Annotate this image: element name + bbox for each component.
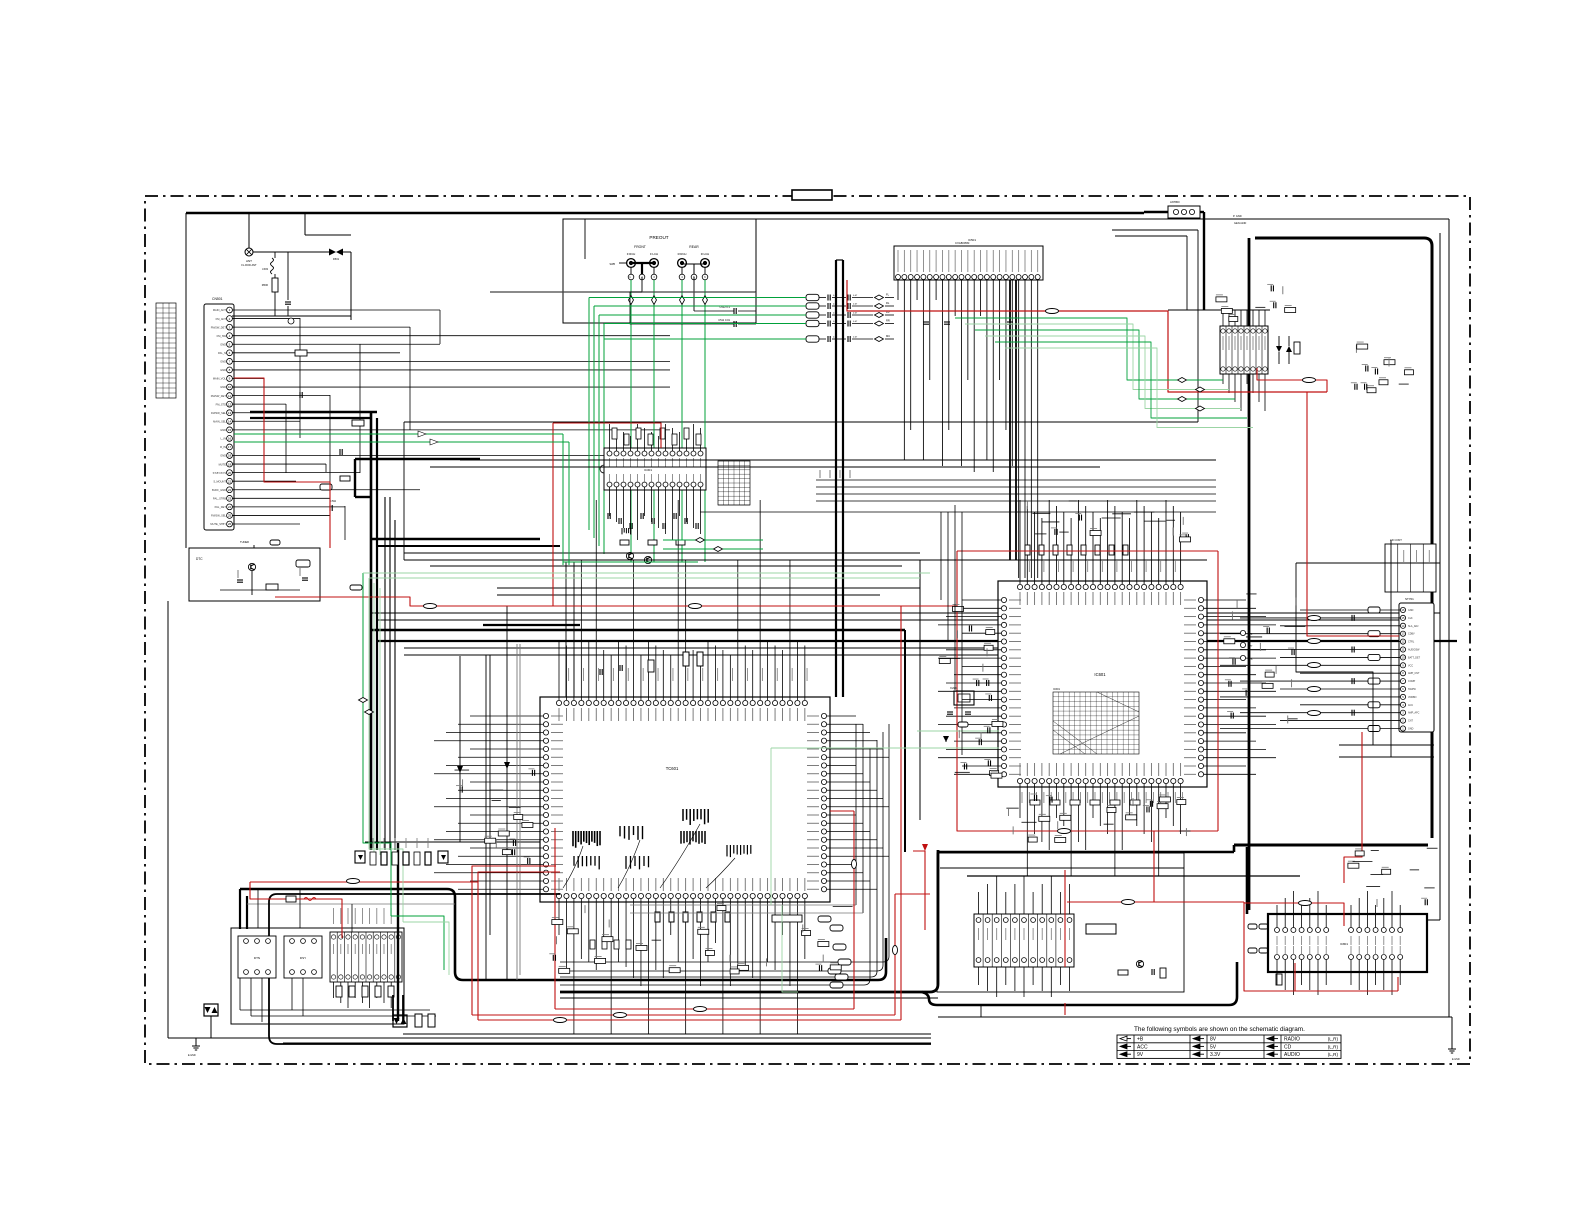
svg-text:CD: CD <box>1284 1044 1292 1050</box>
title box on top border <box>792 190 832 200</box>
cluster above IC601 <box>1027 501 1190 542</box>
svg-text:GND: GND <box>220 385 226 389</box>
svg-text:R:RCH: R:RCH <box>678 252 687 256</box>
connector ST701 <box>1385 538 1436 732</box>
green mid links <box>663 538 763 552</box>
cluster bottom right parts <box>1348 848 1438 907</box>
svg-text:3.3V: 3.3V <box>1210 1052 1221 1058</box>
svg-text:VDDBN: VDDBN <box>1408 696 1417 699</box>
svg-text:IC601: IC601 <box>1053 687 1060 691</box>
svg-text:ACC: ACC <box>1137 1044 1148 1050</box>
IC601 pin table <box>1053 687 1139 754</box>
svg-text:GND: GND <box>220 368 226 372</box>
svg-text:19: 19 <box>228 462 232 466</box>
svg-text:(L,R): (L,R) <box>1328 1044 1339 1049</box>
center vertical wires <box>398 260 920 1021</box>
svg-text:22: 22 <box>228 488 232 492</box>
svg-text:CN501: CN501 <box>212 297 223 301</box>
cluster top right pa-mute <box>1216 284 1296 321</box>
cluster right of IC601 <box>1224 594 1306 724</box>
cluster left of IC601 <box>939 505 1003 778</box>
structural outline lines <box>168 212 1452 1044</box>
svg-text:CDBV: CDBV <box>1408 633 1415 636</box>
connector CN501 <box>204 297 234 530</box>
thick bus right frame <box>1144 212 1432 910</box>
svg-text:FM_SW: FM_SW <box>217 334 227 338</box>
svg-text:13: 13 <box>228 411 232 415</box>
thick center bus <box>250 412 1457 850</box>
cluster below IC601 <box>1006 794 1190 842</box>
svg-text:The following symbols are show: The following symbols are shown on the s… <box>1134 1026 1305 1033</box>
svg-text:GND: GND <box>1408 728 1414 731</box>
svg-text:0.562: 0.562 <box>330 500 337 503</box>
svg-text:8V: 8V <box>1210 1037 1217 1043</box>
TC601 top pin wires <box>559 500 807 700</box>
svg-text:(L,R): (L,R) <box>1328 1037 1339 1042</box>
svg-text:PAL_DET: PAL_DET <box>215 505 227 509</box>
svg-text:L503: L503 <box>262 267 268 271</box>
TC601 bottom pin wires <box>559 899 805 1034</box>
svg-text:FRONT: FRONT <box>634 245 646 249</box>
IC501 pin drop wires <box>898 280 1038 579</box>
preout jacks <box>563 219 756 323</box>
svg-text:CLK: CLK <box>1408 617 1413 620</box>
preout caps <box>585 219 756 327</box>
svg-text:E.GND: E.GND <box>1452 1058 1460 1061</box>
svg-text:ACC: ACC <box>1408 704 1413 707</box>
svg-text:C511 0.01: C511 0.01 <box>718 318 730 322</box>
svg-text:GND: GND <box>220 428 226 432</box>
svg-text:16: 16 <box>228 437 232 441</box>
svg-text:PAL_STRB: PAL_STRB <box>213 497 226 501</box>
IC TC601 <box>540 697 830 902</box>
svg-text:FM/SW_DET: FM/SW_DET <box>211 394 227 398</box>
svg-text:5V: 5V <box>1210 1044 1217 1050</box>
svg-text:21: 21 <box>228 479 232 483</box>
green preout feed lines <box>589 298 806 555</box>
cluster below TC601 <box>549 904 852 974</box>
svg-text:23: 23 <box>228 497 232 501</box>
svg-text:FM/SW_SEL: FM/SW_SEL <box>211 411 227 415</box>
crystal XL601 <box>943 686 974 742</box>
svg-text:XL601: XL601 <box>950 686 958 690</box>
component row S801 <box>355 838 448 865</box>
svg-text:ANT800: ANT800 <box>1170 200 1180 204</box>
svg-text:TP8: TP8 <box>1248 658 1253 661</box>
svg-text:DTN: DTN <box>254 956 260 960</box>
svg-text:MUTE_STBY: MUTE_STBY <box>210 522 226 526</box>
svg-text:CXA8005M: CXA8005M <box>955 241 970 245</box>
svg-text:CTRL: CTRL <box>1408 641 1415 644</box>
svg-text:IC601: IC601 <box>1094 672 1106 677</box>
connector 3pin antenna <box>894 200 1270 310</box>
CN501 wiring mesh <box>232 310 670 590</box>
thick bus bottom <box>240 845 1300 1034</box>
svg-text:14: 14 <box>228 419 232 423</box>
svg-text:IC301: IC301 <box>644 468 652 472</box>
svg-text:R:LCH: R:LCH <box>701 252 709 256</box>
preamp RC coupling rows <box>806 293 894 343</box>
svg-text:AUDIO: AUDIO <box>1284 1052 1300 1058</box>
svg-text:DTC: DTC <box>196 557 203 561</box>
svg-text:12: 12 <box>228 402 232 406</box>
svg-text:GND: GND <box>220 360 226 364</box>
svg-text:E.GND: E.GND <box>188 1054 196 1057</box>
svg-text:DSY: DSY <box>300 956 306 960</box>
svg-text:+B: +B <box>1137 1037 1144 1043</box>
svg-text:SWB: SWB <box>610 263 616 266</box>
IC601 horizontal pin wires <box>938 600 1276 774</box>
svg-text:FM/SW_DET: FM/SW_DET <box>211 325 227 329</box>
svg-text:S_MOUNT: S_MOUNT <box>213 479 226 483</box>
page dash-dot border <box>145 196 1470 1064</box>
svg-text:AMP_CNT: AMP_CNT <box>1408 672 1420 675</box>
IC IC601 <box>998 581 1207 787</box>
svg-text:P. GND: P. GND <box>1233 214 1242 218</box>
ST701 wiring <box>1220 540 1440 757</box>
svg-text:18: 18 <box>228 454 232 458</box>
svg-text:D501: D501 <box>333 257 340 261</box>
svg-text:10: 10 <box>228 385 232 389</box>
svg-text:26: 26 <box>228 522 232 526</box>
svg-text:CNT: CNT <box>1408 720 1413 723</box>
legend symbol table <box>1117 1026 1341 1058</box>
svg-text:COMP: COMP <box>1408 680 1416 683</box>
svg-text:MAIN_SEL: MAIN_SEL <box>213 419 226 423</box>
svg-text:MAIN_VOL: MAIN_VOL <box>213 377 227 381</box>
connector CN801 <box>974 876 1074 997</box>
IC601 vertical pin wires <box>1020 500 1183 876</box>
sub-board DTC box <box>189 540 320 601</box>
svg-text:MAIN_ANT: MAIN_ANT <box>213 308 227 312</box>
svg-text:TUNER: TUNER <box>240 540 249 544</box>
svg-text:TC601: TC601 <box>666 766 679 771</box>
IC301 bottom parts <box>608 513 698 564</box>
svg-text:R_IN: R_IN <box>220 445 226 449</box>
svg-text:REAR: REAR <box>689 245 699 249</box>
svg-text:(L,R): (L,R) <box>1328 1052 1339 1057</box>
TC601 right wire bundle <box>560 716 938 998</box>
svg-text:ST701: ST701 <box>1405 597 1414 601</box>
svg-text:RR: RR <box>886 319 890 323</box>
svg-text:IC801: IC801 <box>1340 942 1348 946</box>
svg-text:GND: GND <box>220 454 226 458</box>
svg-text:15: 15 <box>228 428 232 432</box>
svg-text:TP1: TP1 <box>1248 633 1253 636</box>
svg-text:25: 25 <box>228 514 232 518</box>
svg-text:20: 20 <box>228 471 232 475</box>
svg-text:PAL_N: PAL_N <box>218 351 226 355</box>
svg-text:BATT_DET: BATT_DET <box>1408 656 1421 659</box>
svg-text:MU: MU <box>886 334 890 338</box>
svg-text:RADIO: RADIO <box>1284 1037 1300 1043</box>
dual diodes and grounds <box>188 995 1460 1061</box>
svg-text:TP7: TP7 <box>1248 645 1253 648</box>
svg-text:AUDIOSW: AUDIOSW <box>1408 649 1420 652</box>
svg-text:PREOUT: PREOUT <box>649 235 668 240</box>
display block assembly <box>231 889 931 1044</box>
green fan wires <box>955 318 1253 428</box>
svg-text:BUFF_GND: BUFF_GND <box>212 488 226 492</box>
central bus bundle <box>371 460 1440 655</box>
svg-text:FL.ROD ANT: FL.ROD ANT <box>241 263 257 267</box>
red wire network <box>234 280 1399 1023</box>
svg-text:ST-BY/SYS: ST-BY/SYS <box>213 471 227 475</box>
svg-text:FM_ANT: FM_ANT <box>216 317 227 321</box>
preout jack drop wires <box>490 277 756 562</box>
svg-text:FM_STD: FM_STD <box>216 402 227 406</box>
connector CN701 8pin <box>1220 310 1300 411</box>
svg-text:GND: GND <box>1408 609 1414 612</box>
op-amp IC301 <box>600 448 706 490</box>
svg-text:9V: 9V <box>1137 1052 1144 1058</box>
svg-text:SWPW: SWPW <box>1408 688 1416 691</box>
svg-text:AMP_AFC: AMP_AFC <box>1408 712 1420 715</box>
svg-text:RL: RL <box>886 301 890 305</box>
cluster left of TC601 <box>455 769 535 864</box>
svg-text:17: 17 <box>228 445 232 449</box>
relay box <box>1086 924 1166 978</box>
svg-text:VCC: VCC <box>1408 664 1413 667</box>
svg-text:GEN-GND: GEN-GND <box>1234 221 1246 225</box>
TC601 crystal waveforms <box>563 809 751 888</box>
svg-text:F:RCH: F:RCH <box>627 252 636 256</box>
antenna input circuit <box>232 213 351 324</box>
TC601 left pin wires <box>434 606 580 980</box>
svg-text:FM/SW_SEL: FM/SW_SEL <box>211 514 227 518</box>
IC501 connector <box>894 238 1043 280</box>
IC801 display driver <box>1248 891 1427 995</box>
IC301 gain table <box>718 461 750 505</box>
svg-text:GND: GND <box>220 342 226 346</box>
green wire network <box>234 431 999 992</box>
svg-text:ANT: ANT <box>246 259 252 263</box>
svg-text:11: 11 <box>228 394 231 398</box>
bottom mid section box <box>937 853 1184 992</box>
svg-text:R506: R506 <box>262 283 269 287</box>
svg-text:CD CONT: CD CONT <box>1390 538 1402 542</box>
svg-text:MUTE: MUTE <box>219 462 227 466</box>
left pin-table <box>156 303 176 398</box>
svg-text:L_IN: L_IN <box>221 437 227 441</box>
IC301 pin wires <box>610 424 701 540</box>
svg-text:SLA_ADJ: SLA_ADJ <box>1408 625 1419 628</box>
svg-text:24: 24 <box>228 505 232 509</box>
IC301 top resistors <box>612 428 701 445</box>
cluster Q7xx <box>1351 342 1414 393</box>
svg-text:F:LCH: F:LCH <box>650 252 658 256</box>
